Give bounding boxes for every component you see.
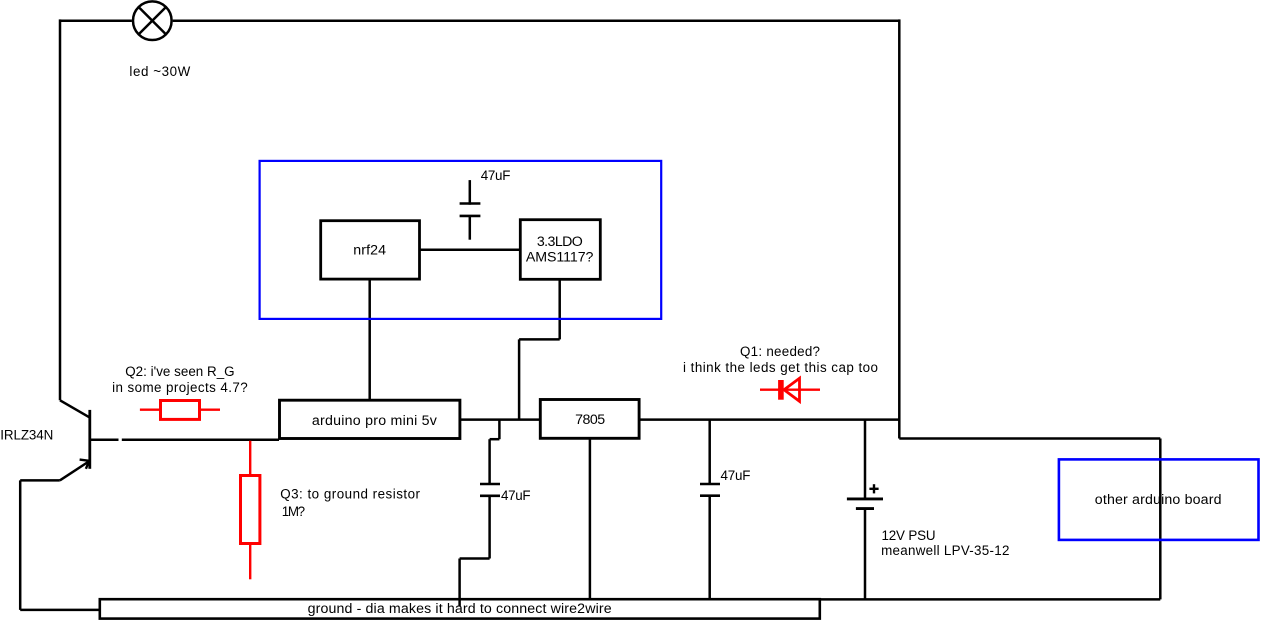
svg-text:led ~30W: led ~30W bbox=[129, 64, 190, 79]
svg-text:AMS1117?: AMS1117? bbox=[526, 249, 594, 265]
svg-text:7805: 7805 bbox=[575, 412, 605, 428]
svg-text:3.3LDO: 3.3LDO bbox=[537, 234, 583, 250]
svg-text:1M?: 1M? bbox=[282, 504, 305, 519]
svg-text:12V PSU: 12V PSU bbox=[882, 528, 936, 543]
svg-text:i think the leds get this cap: i think the leds get this cap too bbox=[683, 360, 878, 375]
svg-text:47uF: 47uF bbox=[481, 168, 511, 183]
svg-text:arduino pro mini 5v: arduino pro mini 5v bbox=[312, 413, 438, 429]
svg-text:47uF: 47uF bbox=[721, 468, 751, 483]
svg-text:47uF: 47uF bbox=[501, 488, 531, 503]
svg-text:nrf24: nrf24 bbox=[353, 242, 386, 258]
svg-text:Q3: to ground resistor: Q3: to ground resistor bbox=[280, 486, 420, 501]
svg-text:other arduino board: other arduino board bbox=[1095, 492, 1222, 508]
svg-text:Q2: i've seen R_G: Q2: i've seen R_G bbox=[125, 364, 234, 379]
svg-text:IRLZ34N: IRLZ34N bbox=[0, 428, 53, 443]
svg-text:in some projects 4.7?: in some projects 4.7? bbox=[112, 380, 248, 395]
svg-text:ground - dia makes it hard to: ground - dia makes it hard to connect wi… bbox=[308, 601, 612, 617]
svg-text:Q1: needed?: Q1: needed? bbox=[740, 344, 820, 359]
svg-text:meanwell LPV-35-12: meanwell LPV-35-12 bbox=[881, 543, 1009, 558]
